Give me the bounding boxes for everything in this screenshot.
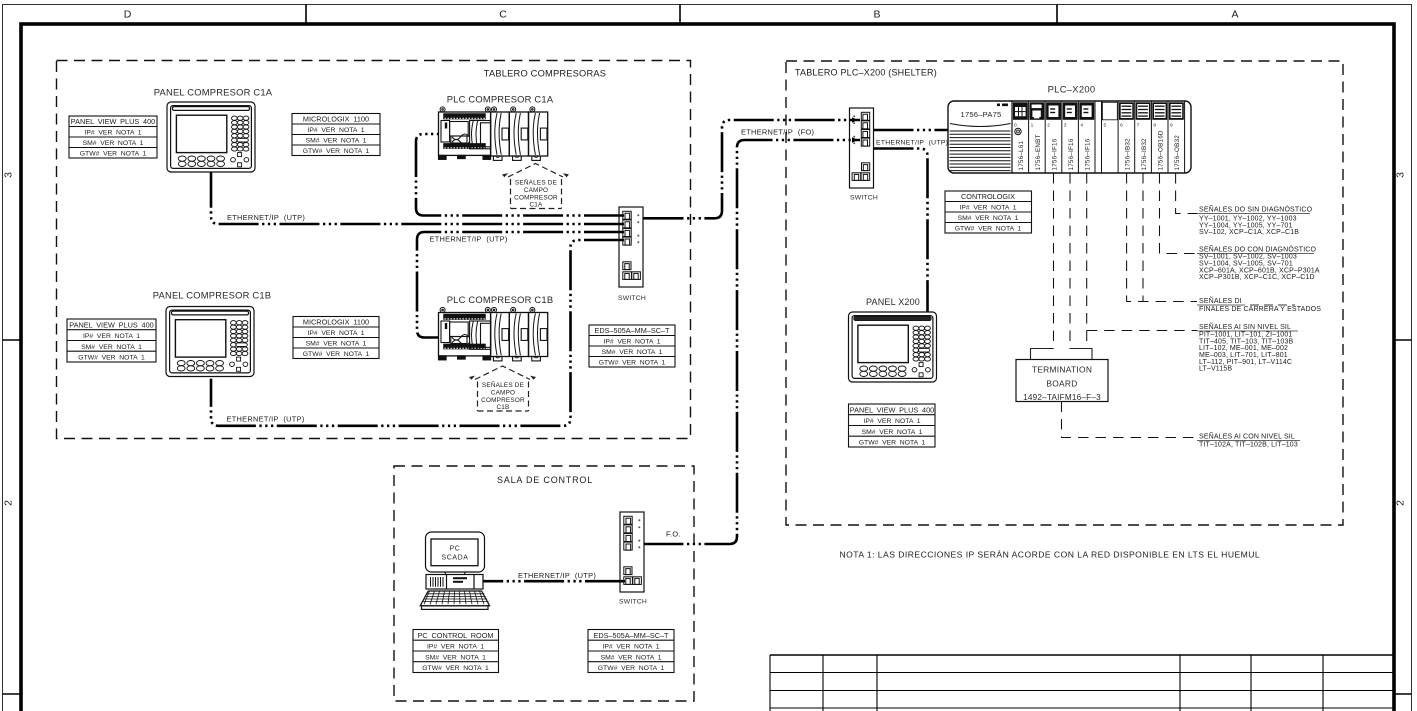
pc scada computer — [420, 532, 489, 609]
svg-text:1756–OB32: 1756–OB32 — [1174, 135, 1181, 171]
module slot 1 1756-ENBT — [1029, 102, 1045, 173]
svg-text:C1A: C1A — [529, 201, 543, 208]
module slot 2 1756-IF16 — [1045, 102, 1061, 173]
svg-text:9: 9 — [1170, 123, 1173, 129]
switch tablero compresoras — [619, 207, 643, 287]
wire shelter switch to controllogix rack — [874, 129, 949, 132]
leader slot2 IF16 to termination board — [1053, 173, 1055, 349]
svg-text:SWITCH: SWITCH — [618, 295, 646, 302]
svg-text:3: 3 — [3, 172, 15, 178]
svg-text:GTW# VER NOTA 1: GTW# VER NOTA 1 — [598, 665, 665, 672]
module slot 8 1756-OB16D — [1151, 102, 1167, 173]
svg-text:1756–ENBT: 1756–ENBT — [1035, 134, 1042, 170]
svg-text:IP# VER NOTA 1: IP# VER NOTA 1 — [602, 644, 659, 651]
svg-text:8: 8 — [1153, 123, 1156, 129]
svg-text:2: 2 — [3, 500, 15, 506]
svg-text:TERMINATION: TERMINATION — [1032, 365, 1092, 375]
svg-text:PANEL COMPRESOR C1A: PANEL COMPRESOR C1A — [154, 87, 273, 98]
svg-text:1756–PA75: 1756–PA75 — [961, 110, 1002, 119]
wire compresoras switch FO uplink to shelter switch — [644, 120, 861, 218]
svg-text:SEÑALES DI: SEÑALES DI — [1199, 296, 1242, 305]
zone numbers — [3, 172, 1407, 506]
svg-text:ETHERNET/IP (UTP): ETHERNET/IP (UTP) — [227, 415, 305, 424]
svg-text:ETHERNET/IP (UTP): ETHERNET/IP (UTP) — [227, 213, 305, 222]
switch sala de control — [620, 512, 644, 592]
svg-text:1756–L61: 1756–L61 — [1018, 141, 1025, 171]
svg-text:PANEL X200: PANEL X200 — [866, 297, 920, 307]
tablero plc-x200 shelter box — [786, 61, 1343, 525]
svg-text:EDS–505A–MM–SC–T: EDS–505A–MM–SC–T — [593, 631, 669, 640]
micrologix PLC compresor C1B — [439, 307, 548, 361]
svg-text:SV–102, XCP–C1A, XCP–C1B: SV–102, XCP–C1A, XCP–C1B — [1199, 229, 1299, 236]
svg-text:SEÑALES DO CON DIAGNÓSTICO: SEÑALES DO CON DIAGNÓSTICO — [1199, 245, 1316, 254]
svg-text:IP# VER NOTA 1: IP# VER NOTA 1 — [307, 127, 364, 134]
svg-text:SM# VER NOTA 1: SM# VER NOTA 1 — [306, 341, 367, 348]
leader slot6 IB32 to DI text — [1127, 173, 1197, 302]
svg-text:IP# VER NOTA 1: IP# VER NOTA 1 — [84, 130, 141, 137]
svg-text:SM# VER NOTA 1: SM# VER NOTA 1 — [306, 138, 367, 145]
signal text DO con diagnostico — [1197, 245, 1320, 282]
table panel view plus 400 (X200) — [849, 404, 936, 447]
svg-text:NOTA 1: LAS DIRECCIONES IP SER: NOTA 1: LAS DIRECCIONES IP SERÁN ACORDE … — [840, 550, 1261, 560]
wire control room switch FO uplink to shelter switch — [644, 140, 861, 544]
svg-text:SEÑALES DE: SEÑALES DE — [482, 380, 524, 389]
svg-text:SM# VER NOTA 1: SM# VER NOTA 1 — [958, 215, 1019, 222]
svg-text:PC CONTROL ROOM: PC CONTROL ROOM — [418, 631, 494, 640]
title block table — [770, 655, 1394, 711]
svg-text:ETHERNET/IP (UTP): ETHERNET/IP (UTP) — [430, 235, 508, 244]
svg-text:PANEL VIEW PLUS 400: PANEL VIEW PLUS 400 — [850, 405, 934, 414]
svg-text:SM# VER NOTA 1: SM# VER NOTA 1 — [425, 654, 486, 661]
leader slot9 OB32 to DO sin diag text — [1176, 173, 1197, 214]
svg-text:SM# VER NOTA 1: SM# VER NOTA 1 — [81, 344, 142, 351]
module slot 6 1756-IB32 — [1118, 102, 1134, 173]
wire panel C1A to switch port 2 — [211, 172, 624, 224]
svg-text:3: 3 — [1064, 123, 1067, 129]
svg-text:GTW# VER NOTA 1: GTW# VER NOTA 1 — [599, 360, 666, 367]
svg-text:1756–IF16: 1756–IF16 — [1068, 138, 1075, 170]
svg-text:C1B: C1B — [496, 404, 509, 411]
svg-text:XCP–P301B, XCP–C1C, XCP–C1D: XCP–P301B, XCP–C1C, XCP–C1D — [1199, 274, 1315, 281]
svg-text:ETHERNET/IP (UTP): ETHERNET/IP (UTP) — [876, 140, 948, 147]
module slot 4 1756-IF16 — [1078, 102, 1094, 173]
table EDS-505A (compresoras) — [589, 325, 675, 367]
micrologix PLC compresor C1A — [439, 107, 548, 160]
table panel view plus 400 (C1B) — [67, 319, 156, 362]
zone letters — [124, 9, 1239, 21]
sala de control box — [394, 466, 694, 701]
side ruler ticks — [3, 339, 22, 341]
svg-text:GTW# VER NOTA 1: GTW# VER NOTA 1 — [80, 151, 147, 158]
wire pc scada to control room switch — [483, 580, 625, 583]
svg-text:CAMPO: CAMPO — [524, 187, 548, 194]
svg-text:LT–V115B: LT–V115B — [1199, 366, 1232, 373]
svg-text:6: 6 — [1120, 123, 1123, 129]
svg-text:PLC COMPRESOR C1A: PLC COMPRESOR C1A — [447, 94, 554, 105]
svg-text:GTW# VER NOTA 1: GTW# VER NOTA 1 — [303, 351, 370, 358]
svg-text:GTW# VER NOTA 1: GTW# VER NOTA 1 — [78, 355, 145, 362]
svg-text:1756–IB32: 1756–IB32 — [1124, 138, 1131, 171]
svg-text:2: 2 — [1395, 500, 1407, 506]
tablero compresoras box — [57, 61, 691, 439]
svg-text:PC: PC — [450, 546, 461, 553]
svg-text:1756–IB32: 1756–IB32 — [1141, 138, 1148, 171]
svg-text:4: 4 — [1080, 123, 1083, 129]
svg-text:SWITCH: SWITCH — [619, 599, 647, 606]
svg-text:CAMPO: CAMPO — [491, 389, 515, 396]
tables — [67, 114, 1032, 673]
wire shelter switch to panel X200 — [874, 149, 928, 313]
svg-text:PANEL VIEW PLUS 400: PANEL VIEW PLUS 400 — [69, 320, 153, 329]
svg-text:IP# VER NOTA 1: IP# VER NOTA 1 — [83, 333, 140, 340]
module slot 9 1756-OB32 — [1168, 102, 1184, 173]
svg-text:EDS–505A–MM–SC–T: EDS–505A–MM–SC–T — [594, 326, 670, 335]
table micrologix 1100 (C1B) — [293, 317, 379, 359]
svg-text:PLC COMPRESOR C1B: PLC COMPRESOR C1B — [447, 294, 554, 305]
svg-text:PLC–X200: PLC–X200 — [1048, 84, 1096, 95]
module slot 0 1756-L61 — [1012, 102, 1028, 173]
wire PLC C1A to switch port 1 — [416, 134, 624, 216]
svg-text:SCADA: SCADA — [441, 555, 468, 562]
table pc control room — [413, 630, 499, 673]
svg-text:SWITCH: SWITCH — [850, 195, 878, 202]
svg-text:F.O.: F.O. — [666, 530, 681, 539]
signal leaders and labels — [1031, 173, 1322, 449]
svg-text:B: B — [873, 9, 880, 21]
svg-text:1492–TAIFM16–F–3: 1492–TAIFM16–F–3 — [1023, 393, 1101, 402]
svg-text:SM# VER NOTA 1: SM# VER NOTA 1 — [602, 349, 663, 356]
panelview panel X200 — [849, 312, 937, 382]
svg-text:A: A — [1231, 9, 1238, 21]
svg-text:1756–OB16D: 1756–OB16D — [1158, 130, 1165, 170]
svg-text:TABLERO PLC–X200 (SHELTER): TABLERO PLC–X200 (SHELTER) — [795, 68, 937, 78]
svg-text:1756–IF16: 1756–IF16 — [1085, 138, 1092, 170]
svg-text:IP# VER NOTA 1: IP# VER NOTA 1 — [959, 205, 1016, 212]
devices — [153, 87, 1108, 610]
table micrologix 1100 (C1A) — [292, 114, 380, 156]
signal text AI con nivel SIL — [1197, 432, 1300, 449]
table EDS-505A (sala) — [588, 630, 674, 673]
leader termination board to AI con nivel sil text — [1062, 402, 1198, 438]
module slot 5 (empty) — [1102, 102, 1118, 173]
svg-text:3: 3 — [1395, 172, 1407, 178]
svg-text:GTW# VER NOTA 1: GTW# VER NOTA 1 — [303, 148, 370, 155]
svg-text:IP# VER NOTA 1: IP# VER NOTA 1 — [603, 339, 660, 346]
svg-text:COMPRESOR: COMPRESOR — [481, 397, 525, 404]
svg-text:IP# VER NOTA 1: IP# VER NOTA 1 — [307, 330, 364, 337]
svg-text:PANEL VIEW PLUS 400: PANEL VIEW PLUS 400 — [71, 117, 155, 126]
table panel view plus 400 (C1A) — [69, 116, 157, 158]
svg-text:COMPRESOR: COMPRESOR — [514, 194, 558, 201]
signal text DI — [1197, 296, 1321, 313]
svg-text:7: 7 — [1137, 123, 1140, 129]
svg-text:IP# VER NOTA 1: IP# VER NOTA 1 — [863, 418, 920, 425]
svg-text:FINALES DE CARRERA Y ESTADOS: FINALES DE CARRERA Y ESTADOS — [1199, 306, 1321, 313]
svg-text:SM# VER NOTA 1: SM# VER NOTA 1 — [862, 429, 923, 436]
svg-text:GTW# VER NOTA 1: GTW# VER NOTA 1 — [859, 440, 926, 447]
termination board — [1016, 360, 1108, 403]
top ruler ticks — [305, 5, 307, 25]
svg-text:SEÑALES AI SIN NIVEL SIL: SEÑALES AI SIN NIVEL SIL — [1199, 322, 1291, 331]
panelview panel compresor C1B — [166, 307, 254, 377]
svg-text:SALA DE CONTROL: SALA DE CONTROL — [497, 475, 593, 485]
callout señales de campo compresor C1A — [508, 164, 563, 209]
leader slot8 OB16D to DO con diag text — [1160, 173, 1198, 254]
callout señales de campo compresor C1B — [475, 366, 530, 411]
termination board bracket — [1031, 349, 1093, 360]
wire switch port 3 to PLC C1B — [417, 232, 624, 338]
leader slot4 IF16 to termination board and AI text — [1086, 173, 1088, 349]
svg-text:D: D — [124, 9, 132, 21]
signal text DO sin diagnostico — [1197, 205, 1313, 237]
panelview panel compresor C1A — [167, 102, 255, 172]
svg-text:1756–IF16: 1756–IF16 — [1051, 138, 1058, 170]
signal text AI sin nivel SIL — [1197, 322, 1298, 373]
svg-text:ETHERNET/IP (FO): ETHERNET/IP (FO) — [741, 128, 814, 137]
power supply 1756-PA75 — [950, 101, 1013, 173]
svg-text:1: 1 — [1031, 123, 1034, 129]
svg-text:PANEL COMPRESOR C1B: PANEL COMPRESOR C1B — [153, 290, 271, 301]
arrowheads at shelter switch ports — [852, 117, 858, 143]
module slot 7 1756-IB32 — [1135, 102, 1151, 173]
svg-text:IP# VER NOTA 1: IP# VER NOTA 1 — [427, 644, 484, 651]
svg-text:ETHERNET/IP (UTP): ETHERNET/IP (UTP) — [518, 571, 596, 580]
table contrologix — [945, 191, 1032, 233]
svg-text:2: 2 — [1047, 123, 1050, 129]
leader slot7 IB32 to DI line — [1142, 173, 1144, 302]
plc rack — [948, 84, 1191, 174]
svg-text:GTW# VER NOTA 1: GTW# VER NOTA 1 — [422, 665, 489, 672]
svg-text:5: 5 — [1104, 123, 1107, 129]
leader slot3 IF16 to termination board — [1069, 173, 1071, 349]
svg-text:GTW# VER NOTA 1: GTW# VER NOTA 1 — [955, 226, 1022, 233]
svg-text:MICROLOGIX 1100: MICROLOGIX 1100 — [303, 318, 369, 327]
svg-text:SM# VER NOTA 1: SM# VER NOTA 1 — [601, 654, 662, 661]
svg-text:SEÑALES AI CON NIVEL SIL: SEÑALES AI CON NIVEL SIL — [1199, 432, 1295, 441]
svg-text:BOARD: BOARD — [1046, 379, 1077, 389]
wire panel C1B to switch port 4 — [211, 240, 624, 426]
svg-text:C: C — [499, 9, 507, 21]
module slot 3 1756-IF16 — [1062, 102, 1078, 173]
svg-text:TIT–102A, TIT–102B, LIT–103: TIT–102A, TIT–102B, LIT–103 — [1199, 442, 1298, 449]
svg-text:TABLERO COMPRESORAS: TABLERO COMPRESORAS — [484, 69, 606, 79]
switch shelter (mirrored) — [850, 108, 874, 188]
svg-text:SM# VER NOTA 1: SM# VER NOTA 1 — [83, 140, 144, 147]
svg-text:SEÑALES DE: SEÑALES DE — [515, 177, 557, 186]
svg-text:MICROLOGIX 1100: MICROLOGIX 1100 — [303, 115, 369, 124]
svg-text:SEÑALES DO SIN DIAGNÓSTICO: SEÑALES DO SIN DIAGNÓSTICO — [1199, 205, 1313, 214]
svg-text:0: 0 — [1014, 123, 1017, 129]
svg-text:CONTROLOGIX: CONTROLOGIX — [961, 192, 1015, 201]
